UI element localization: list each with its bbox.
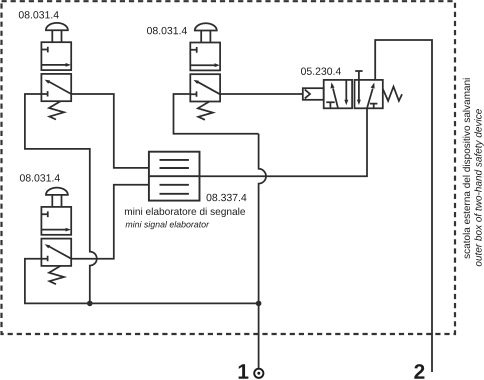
- blocked port T (top box) V3: [41, 211, 47, 217]
- valve body boxes V2: [190, 43, 220, 71]
- U2 pilot box with chevron: [303, 88, 324, 100]
- label 05.230.4 for valve U2: [301, 68, 341, 75]
- label: mini elaboratore di segnale: [125, 208, 245, 217]
- net label: outer box of two-hand safety device: [474, 109, 483, 266]
- net label: scatola esterna del dispositivo salvamani: [463, 78, 472, 258]
- junction A (dot on bottom rail, x=89.8): [87, 301, 93, 307]
- signal elaborator U1: mini elaboratore di segnale 08.337.4: [149, 152, 200, 201]
- valve V3: 3/2 push-button valve 08.031.4 (bottom left): [41, 188, 71, 285]
- flow arrow (top box) V1: [41, 64, 66, 66]
- U2 left box: blocked port T: [326, 102, 334, 108]
- U2 right box: diagonal up arrow: [367, 89, 373, 109]
- wire: supply branch to valve V2 inlet: [174, 94, 259, 134]
- label 08.337.4 for signal elaborator U1: [207, 194, 247, 201]
- exhaust diagonal arrow (bottom box) V3: [48, 246, 72, 259]
- wire: elaborator output to bottom port of valve U2: [200, 108, 368, 176]
- return spring V2: [198, 102, 213, 120]
- label: port 2: [414, 364, 424, 379]
- label 08.031.4 for valve V1: [19, 11, 59, 18]
- label 08.031.4 for valve V3: [20, 174, 60, 181]
- U1 internal lines: [160, 160, 189, 194]
- push button mushroom V1: [46, 23, 68, 30]
- exhaust diagonal arrow (bottom box) V1: [48, 81, 72, 94]
- valve body boxes V3: [41, 207, 71, 235]
- wire: supply from junction A up-left to valve V1 inlet (with hop over V3 output wire): [25, 94, 97, 303]
- port 1 connector circle: [254, 369, 263, 378]
- valve U2: pilot operated 3/2 valve 05.230.4: [303, 71, 402, 108]
- wire: port 1 riser (with hop over elaborator output wire) down to port 1: [259, 134, 266, 368]
- push button mushroom V3: [46, 188, 68, 195]
- valve V1: 3/2 push-button valve 08.031.4 (top left): [41, 23, 71, 120]
- U2 top plugged port T: [355, 71, 362, 80]
- blocked port T (bottom box) V1: [41, 91, 47, 96]
- wire: V2 output to pilot of U2: [220, 93, 303, 95]
- blocked port T (bottom box) V3: [41, 256, 47, 261]
- label: port 1: [239, 364, 249, 378]
- return spring V1: [49, 101, 64, 119]
- wire: V3 output right-up to signal elaborator lower input: [71, 185, 149, 259]
- U2 left box: diagonal up arrow: [333, 88, 338, 108]
- wire: U2 top outlet up and right, down to port 2: [375, 40, 432, 372]
- U2 left box: down arrow: [345, 80, 347, 101]
- U2 body boxes: [324, 80, 352, 108]
- label 08.031.4 for valve V2: [147, 27, 187, 34]
- valve body boxes V1: [41, 42, 71, 70]
- blocked port T (top box) V2: [190, 47, 196, 53]
- push button mushroom V2: [195, 23, 217, 30]
- wire: V1 output right-down to signal elaborator upper input: [71, 94, 149, 168]
- label: mini signal elaborator: [126, 221, 210, 229]
- flow arrow (top box) V2: [190, 64, 215, 66]
- U2 right box: down arrow: [358, 80, 360, 100]
- exhaust diagonal arrow (bottom box) V2: [196, 81, 220, 94]
- junction B (dot on bottom rail, x=258.6): [256, 301, 262, 307]
- blocked port T (top box) V1: [41, 47, 47, 53]
- wire: V3 inlet left-down to bottom supply rail: [25, 259, 259, 304]
- return spring V3: [49, 266, 64, 284]
- valve V2: 3/2 push-button valve 08.031.4 (top middle): [190, 23, 220, 120]
- flow arrow (top box) V3: [41, 229, 66, 231]
- U2 right box: blocked port T: [370, 104, 378, 109]
- U2 return spring: [383, 87, 402, 101]
- blocked port T (bottom box) V2: [190, 91, 196, 96]
